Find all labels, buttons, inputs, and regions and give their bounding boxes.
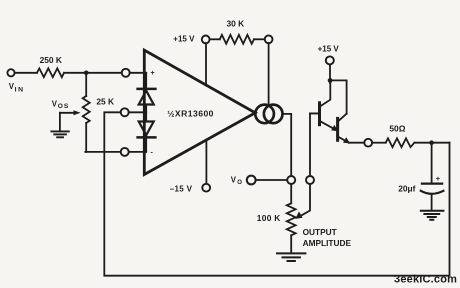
wire to 30K (210, 38, 220, 40)
label 100 K (257, 213, 281, 223)
wire +15V to op-amp (205, 43, 207, 85)
wire bias pin left and down (104, 112, 120, 152)
transistor Q2 (336, 118, 339, 140)
svg-text:250 K: 250 K (40, 55, 62, 65)
wire (15, 72, 37, 74)
svg-text:AMPLITUDE: AMPLITUDE (303, 238, 352, 248)
svg-text:50Ω: 50Ω (389, 124, 405, 134)
wire (129, 151, 147, 153)
current source symbol (255, 105, 274, 124)
label plus input (151, 70, 155, 77)
wire (372, 142, 386, 144)
potentiometer 100 K (287, 203, 296, 235)
label minus input (151, 150, 154, 157)
label VO (231, 175, 242, 186)
wire pot bottom (85, 123, 87, 152)
terminal pin buffer input (306, 176, 314, 184)
wire (64, 72, 122, 74)
op-amp U1 half XR13600 (144, 50, 255, 174)
junction node (84, 71, 89, 76)
svg-text:OS: OS (58, 103, 70, 110)
supply -15V op-amp (202, 184, 210, 192)
svg-text:25 K: 25 K (96, 96, 114, 106)
resistor 250 K (37, 68, 64, 77)
wiper arrowhead 100K (295, 211, 302, 219)
wiper arrow 25K (60, 112, 76, 114)
label VOS (52, 99, 70, 110)
svg-text:+: + (436, 176, 440, 183)
wire between diodes (145, 105, 147, 122)
wire bias down to current source (268, 43, 270, 105)
label 30 K (227, 19, 245, 29)
ground cap (421, 211, 444, 220)
svg-text:–15 V: –15 V (170, 184, 193, 193)
wire output pin down (290, 184, 292, 203)
terminal pin inverting input (121, 148, 129, 156)
25K pot wire top (85, 73, 87, 96)
resistor 30 K (220, 35, 254, 44)
wire supply down (329, 64, 331, 83)
feedback wire bottom rail (104, 143, 449, 276)
svg-text:+: + (151, 70, 155, 77)
wire wiper to ground (59, 113, 61, 131)
terminal pin diode bias (121, 108, 129, 116)
svg-text:100 K: 100 K (257, 213, 281, 223)
wire -15V to op-amp (205, 140, 207, 184)
supply +15V buffer (318, 45, 340, 54)
svg-text:3eekIC.com: 3eekIC.com (394, 274, 457, 286)
label 50 ohm (389, 124, 405, 134)
label plus cap (436, 176, 440, 183)
label 20uf (398, 183, 415, 193)
resistor 50 ohm (386, 138, 415, 147)
wire (130, 72, 147, 74)
svg-text:20μf: 20μf (398, 183, 415, 193)
ground VOS (51, 131, 68, 137)
svg-text:30 K: 30 K (227, 19, 245, 29)
junction (328, 78, 333, 83)
wire wiper pin from Q1 base (310, 113, 318, 176)
svg-text:O: O (237, 180, 242, 186)
wire (254, 38, 265, 40)
capacitor C1 20uF (431, 143, 433, 184)
wire pot to ground (290, 235, 292, 252)
potentiometer 25 K (83, 96, 90, 123)
svg-text:+15 V: +15 V (173, 35, 195, 44)
wire to corner (414, 142, 449, 144)
svg-text:+15 V: +15 V (318, 45, 340, 54)
label 25 K (96, 96, 114, 106)
svg-text:-: - (151, 150, 154, 157)
terminal pin noninverting input (122, 69, 130, 77)
svg-text:IN: IN (15, 86, 25, 93)
wire inverting node horizontal (85, 151, 120, 153)
wire VO (256, 179, 288, 181)
terminal pin output (287, 176, 295, 184)
ground 100K (277, 253, 305, 261)
label OUTPUT AMPLITUDE (303, 227, 352, 248)
junction (429, 140, 434, 145)
label 250 K (40, 55, 62, 65)
diode D1 (145, 73, 147, 91)
terminal VIN (7, 69, 14, 76)
transistor Q1 (318, 103, 321, 125)
wire emitter out (349, 142, 365, 144)
wire pin to wiper (300, 184, 311, 217)
label half XR13600 (167, 109, 214, 119)
svg-text:½XR13600: ½XR13600 (167, 109, 214, 119)
diode D2 (139, 122, 154, 136)
supply +15V op-amp (202, 36, 210, 44)
svg-text:OUTPUT: OUTPUT (303, 227, 337, 237)
terminal VO (247, 176, 256, 185)
terminal pin bias current (265, 35, 273, 43)
terminal pin emitter out (364, 139, 372, 147)
svg-text:V: V (231, 175, 237, 184)
wire output to down line (282, 114, 291, 176)
label VIN (9, 82, 25, 93)
wire collector rail (330, 80, 347, 113)
